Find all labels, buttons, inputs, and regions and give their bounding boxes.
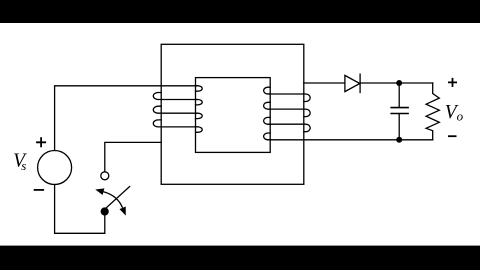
transformer outer box [161, 44, 304, 184]
resistor R zigzag [426, 83, 439, 140]
primary winding arcs at outer edge [153, 93, 161, 100]
arrowhead lower-right [120, 207, 126, 216]
wire: switch top to transformer [105, 142, 161, 171]
capacitor C top lead [398, 83, 400, 107]
diode D1 cathode bar [359, 74, 361, 92]
letterbox bottom bar [0, 246, 480, 270]
capacitor C plates [391, 108, 408, 114]
svg-text:s: s [21, 158, 26, 173]
capacitor C bottom lead [398, 114, 400, 140]
switch open terminal circle [101, 172, 109, 180]
wire: top wire from source to primary winding [55, 86, 198, 151]
voltage source Vs circle [38, 151, 72, 185]
transformer inner box (core window) [196, 78, 271, 153]
junction dot bottom [396, 137, 402, 143]
switch lower contact dot [101, 207, 109, 215]
minus sign at source [34, 189, 44, 191]
secondary winding front strands [268, 94, 304, 124]
plus sign at source [36, 137, 46, 147]
svg-text:o: o [457, 109, 464, 124]
junction dot top [396, 80, 402, 86]
primary winding front strands [161, 100, 198, 127]
primary winding hooks at inner edge [196, 86, 203, 91]
secondary winding hooks at inner edge [264, 87, 271, 94]
switch toggle arc arrow [104, 192, 123, 208]
letterbox top bar [0, 0, 480, 23]
arrowhead upper-left [95, 188, 104, 195]
minus sign at output [448, 135, 457, 137]
wire: source bottom to bottom rail to switch dot [55, 185, 105, 234]
wire: diode to resistor top [360, 82, 433, 84]
plus sign at output [448, 78, 457, 87]
diode D1 triangle [345, 75, 360, 91]
wire: bottom rail from secondary to resistor [268, 139, 433, 141]
wire: secondary top to diode [304, 82, 345, 84]
switch blade [105, 187, 129, 209]
secondary winding arcs at outer edge [304, 94, 310, 102]
